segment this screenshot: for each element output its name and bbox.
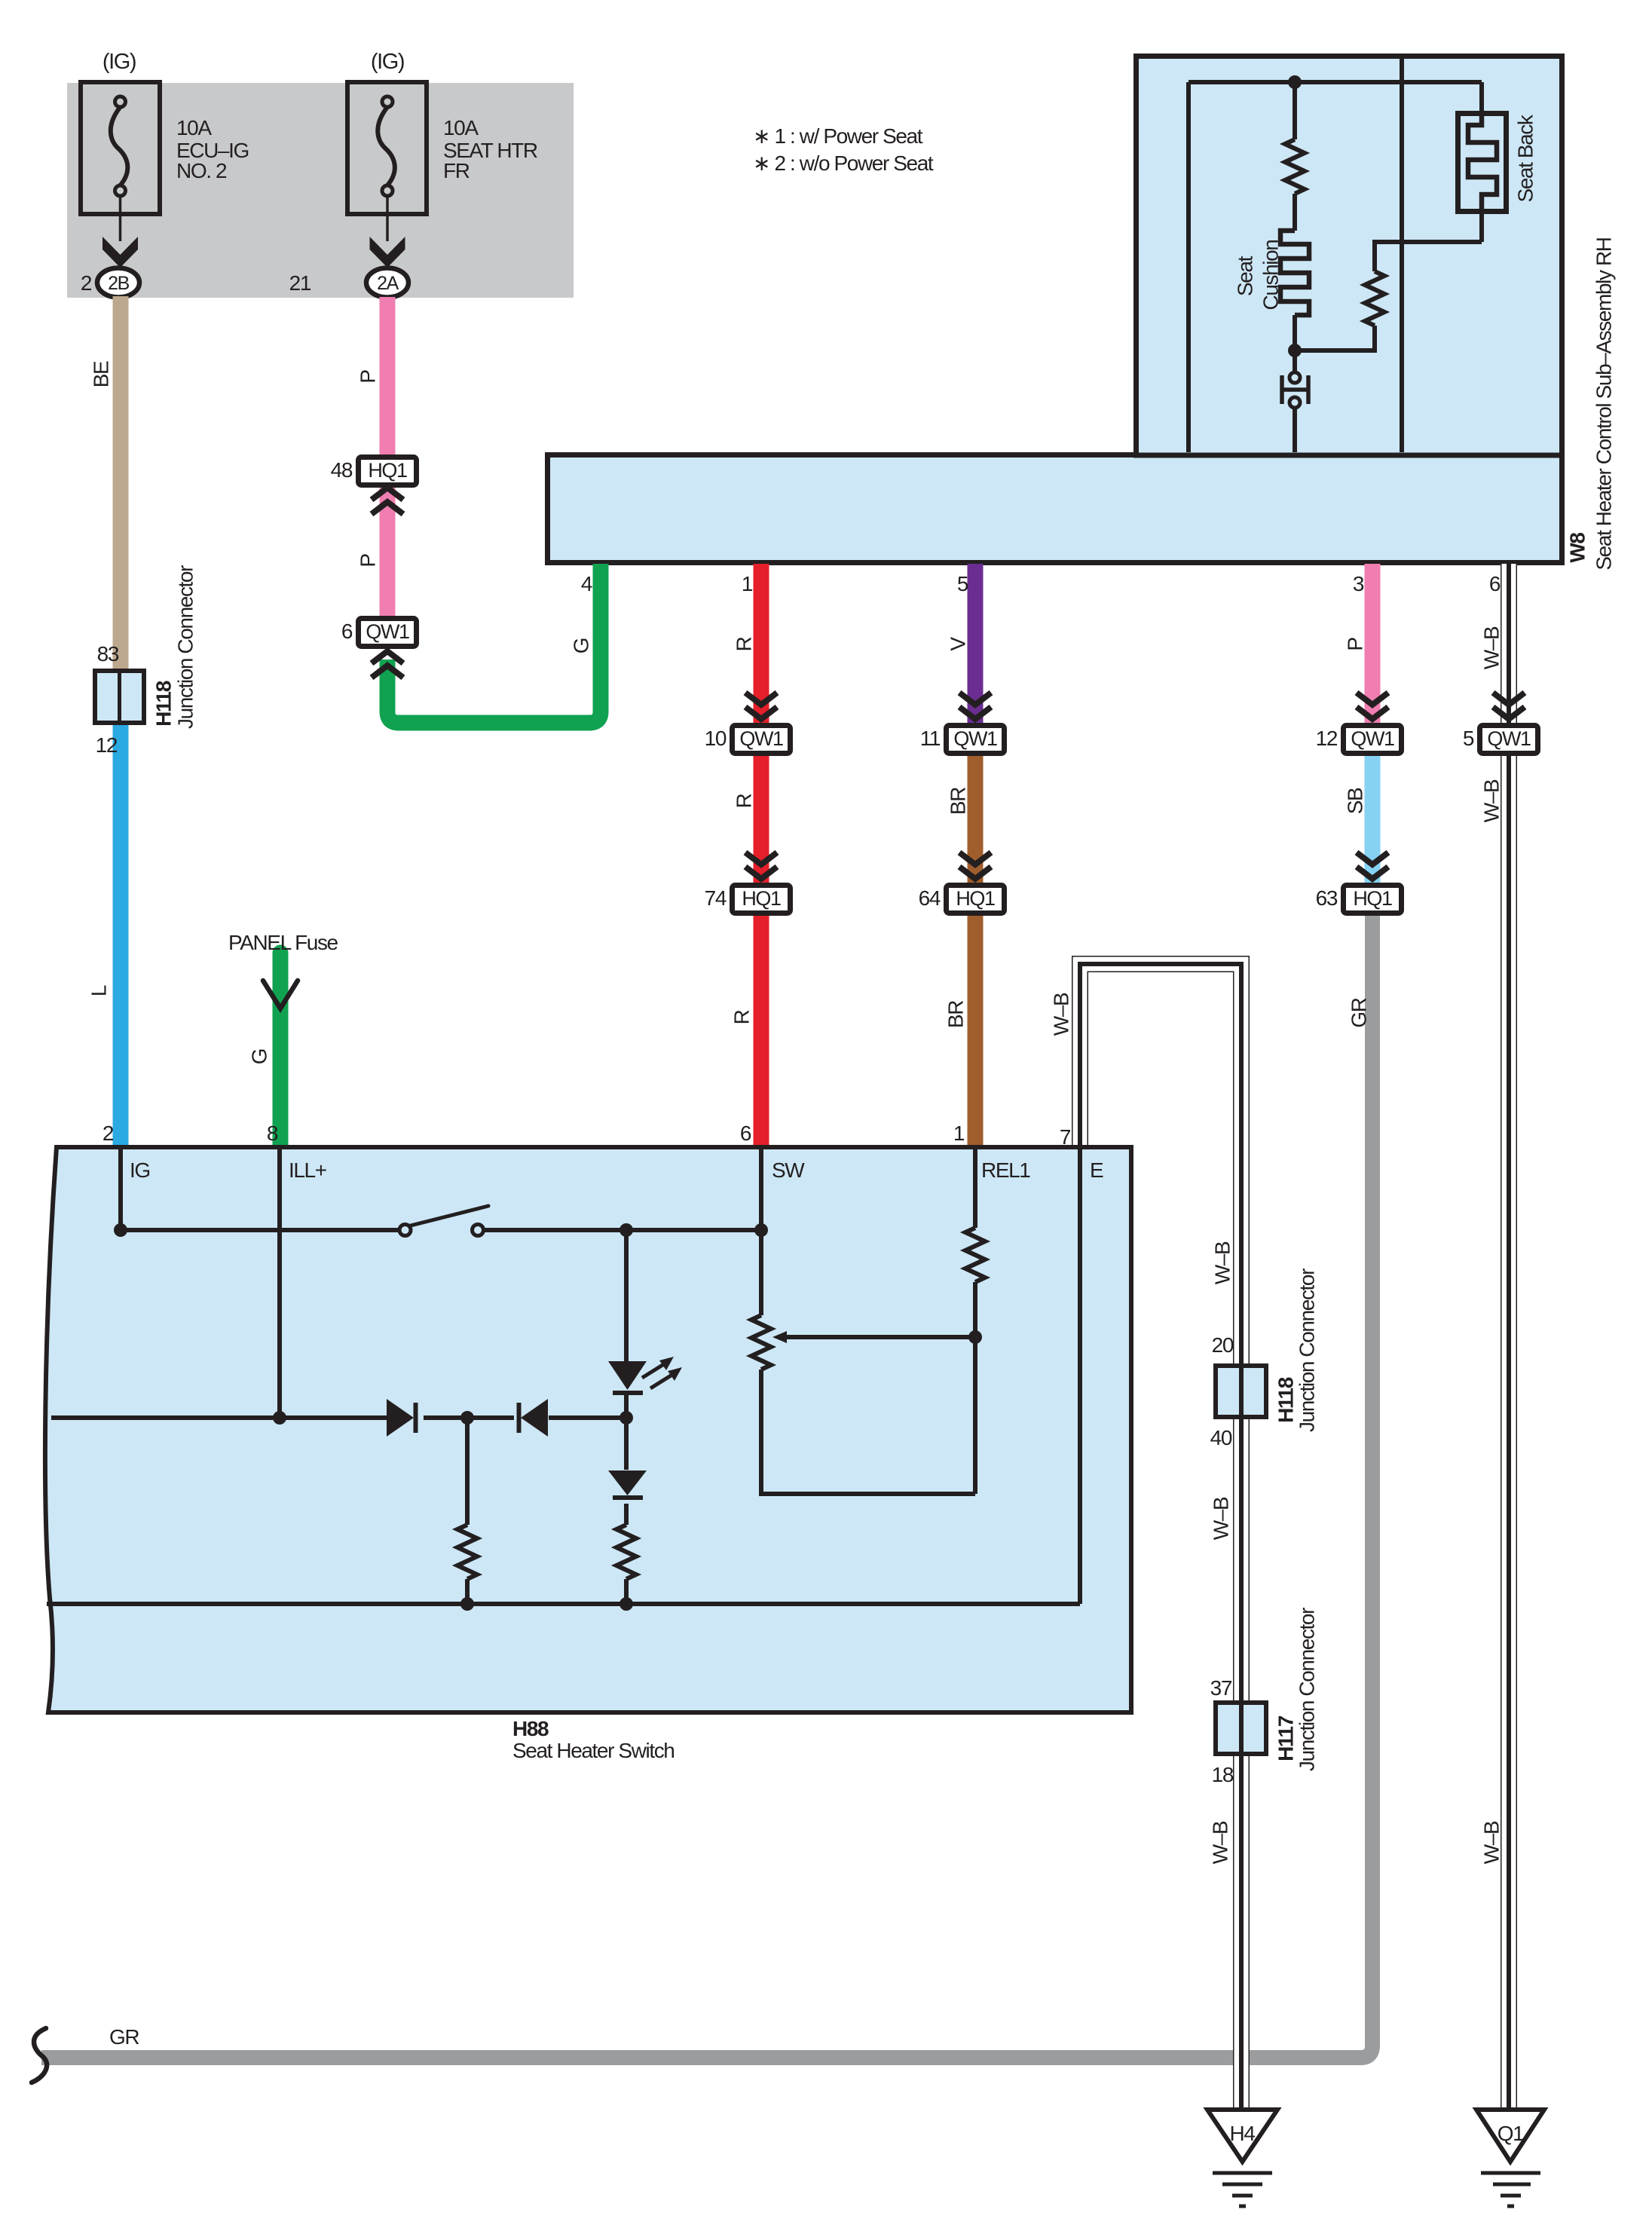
- svg-text:SB: SB: [1344, 788, 1367, 814]
- junction connector H118 (right) wire core: [1239, 1366, 1244, 1417]
- wire W-B (QW1 5 to ground Q1): [1501, 754, 1517, 2110]
- svg-text:2: 2: [81, 271, 92, 295]
- svg-text:GR: GR: [109, 2025, 139, 2049]
- junction connector H117 wire core: [1239, 1703, 1244, 1754]
- svg-text:Junction Connector: Junction Connector: [1296, 1269, 1319, 1432]
- wire V (W8 pin 5 to QW1 11): [968, 564, 984, 724]
- svg-text:10A: 10A: [443, 116, 479, 139]
- svg-text:SW: SW: [772, 1158, 805, 1182]
- wire BR (HQ1 64 to switch pin 1): [968, 914, 984, 1146]
- svg-text:48: 48: [331, 458, 353, 482]
- arrow into QW1 6 (up): [372, 651, 403, 678]
- wire: W8 internal left branch vertical: [1186, 82, 1191, 452]
- resistor (seat cushion parallel): [1365, 271, 1384, 326]
- svg-text:R: R: [733, 637, 756, 651]
- node: bottom rail junction left: [460, 1597, 474, 1611]
- svg-text:Junction Connector: Junction Connector: [174, 565, 197, 729]
- arrow into QW1 11 (down): [959, 693, 991, 719]
- svg-text:PANEL Fuse: PANEL Fuse: [228, 931, 338, 954]
- svg-text:10A: 10A: [176, 116, 212, 139]
- svg-text:IG: IG: [130, 1158, 150, 1182]
- ground Q1 hatching: [1481, 2173, 1540, 2206]
- wire: REL1 resistor to bottom loop: [973, 1282, 977, 1494]
- wire: LED branch vertical: [624, 1230, 629, 1361]
- svg-text:6: 6: [341, 620, 353, 643]
- ground H4 triangle: [1207, 2110, 1277, 2162]
- wire: W8 internal top horizontal: [1189, 80, 1482, 84]
- svg-text:W–B: W–B: [1050, 993, 1073, 1036]
- svg-text:BR: BR: [947, 788, 970, 815]
- rotated wire labels: [87, 114, 1616, 1864]
- heater element: seat back outer frame: [1458, 114, 1507, 212]
- diode D1 (ILL+ rail, pointing right): [387, 1399, 414, 1437]
- resistor (REL1 branch): [965, 1228, 985, 1282]
- PANEL fuse feed arrow: [263, 981, 298, 1008]
- wire: top horizontal to seat back element: [1479, 82, 1484, 111]
- arrow into HQ1 63 (down): [1357, 852, 1388, 879]
- node: ILL+ junction: [273, 1411, 286, 1425]
- wire GR (HQ1 63 down and across to left edge): [41, 914, 1372, 2058]
- wiper wire REL1 node to potentiometer: [785, 1335, 975, 1339]
- svg-text:40: 40: [1210, 1426, 1232, 1449]
- LED1 (indicator, pointing down): [608, 1361, 647, 1390]
- connector QW1 5 box: [1480, 726, 1538, 754]
- svg-text:QW1: QW1: [366, 620, 409, 643]
- arrow into HQ1 74 (down): [745, 852, 777, 879]
- svg-text:1: 1: [742, 572, 753, 595]
- svg-text:QW1: QW1: [1351, 727, 1394, 750]
- wire: switch pin 7 E internal: [1078, 1147, 1082, 1604]
- wire R (HQ1 74 to switch pin 6): [754, 914, 769, 1146]
- switch contact: left terminal: [399, 1225, 411, 1236]
- svg-text:Cushion: Cushion: [1259, 240, 1283, 311]
- wire W-B (W8 pin 6 to QW1 5): [1501, 564, 1517, 724]
- svg-text:P: P: [1344, 638, 1367, 651]
- svg-text:12: 12: [96, 733, 118, 757]
- wire: node to LED2: [624, 1418, 629, 1470]
- resistor (LED2 branch): [616, 1525, 636, 1579]
- connector HQ1 64 box: [947, 886, 1005, 914]
- svg-text:2A: 2A: [377, 273, 399, 294]
- svg-text:4: 4: [581, 572, 592, 595]
- fuse block (grey box): [67, 83, 574, 298]
- svg-text:H88: H88: [512, 1717, 549, 1740]
- svg-text:QW1: QW1: [1487, 727, 1531, 750]
- svg-text:R: R: [733, 794, 756, 808]
- svg-text:10: 10: [705, 727, 727, 750]
- svg-text:83: 83: [97, 642, 119, 666]
- fuse F2 output arrow: [370, 237, 405, 268]
- node: bottom rail junction right: [619, 1597, 633, 1611]
- connector QW1 10 box: [733, 726, 791, 754]
- seat heater control sub-assembly W8 : connector bar: [548, 455, 1562, 563]
- node: LED chain junction: [619, 1411, 633, 1425]
- potentiometer (SW branch) zigzag: [751, 1315, 771, 1370]
- svg-text:Junction Connector: Junction Connector: [1296, 1608, 1319, 1771]
- wire P (connector HQ1 48 to connector QW1 6): [380, 487, 396, 617]
- wire: node to right resistor: [1295, 326, 1375, 350]
- wire: right resistor top to seat back bottom: [1375, 242, 1482, 271]
- fuse F2 10A SEAT HTR FR : box: [347, 82, 427, 214]
- wire: switch pin 2 IG internal: [118, 1147, 123, 1230]
- svg-text:E: E: [1090, 1158, 1103, 1182]
- wire: LED1 to node: [624, 1395, 629, 1418]
- connector oval 2B: [97, 268, 139, 298]
- wire: ILL+ node to resistor: [465, 1418, 470, 1525]
- svg-text:R: R: [730, 1010, 754, 1024]
- svg-text:8: 8: [267, 1122, 278, 1145]
- svg-text:V: V: [947, 637, 970, 651]
- fuse F2 element (S-curve with terminals): [378, 96, 395, 241]
- svg-text:QW1: QW1: [953, 727, 997, 750]
- svg-text:G: G: [570, 638, 593, 653]
- svg-text:Q1: Q1: [1498, 2122, 1524, 2145]
- wire: switch pin 6 SW internal: [759, 1147, 763, 1315]
- arrow into QW1 12 (down): [1357, 693, 1388, 719]
- svg-text:GR: GR: [1348, 998, 1371, 1027]
- svg-text:W–B: W–B: [1210, 1497, 1233, 1540]
- svg-text:2B: 2B: [108, 273, 130, 294]
- wire: resistor to bottom rail: [465, 1579, 470, 1604]
- wire: resistor to bottom rail: [624, 1579, 629, 1604]
- wire BR (QW1 11 to HQ1 64): [968, 754, 984, 884]
- svg-text:37: 37: [1210, 1676, 1232, 1700]
- wire R (QW1 10 to HQ1 74): [754, 754, 769, 884]
- svg-text:∗ 2 : w/o Power Seat: ∗ 2 : w/o Power Seat: [753, 151, 934, 175]
- heater element: seat cushion meander: [1280, 231, 1309, 315]
- connector HQ1 48 box: [359, 458, 417, 485]
- node: LED branch top junction: [619, 1223, 633, 1237]
- svg-text:L: L: [87, 985, 111, 996]
- svg-text:64: 64: [919, 886, 941, 910]
- ground Q1 triangle: [1476, 2110, 1544, 2162]
- thermal protector switch: [1289, 372, 1300, 383]
- node: seat cushion bottom junction: [1288, 344, 1302, 357]
- svg-text:REL1: REL1: [981, 1158, 1030, 1182]
- wire: node to thermal switch: [1293, 350, 1297, 372]
- wire: heater to node: [1293, 315, 1297, 350]
- wire L (junction H118 to switch pin 2): [113, 724, 129, 1146]
- svg-text:HQ1: HQ1: [368, 459, 407, 482]
- wire: switch pin 8 ILL+ internal: [277, 1147, 282, 1418]
- seat heater switch H88 : body: [45, 1147, 1131, 1712]
- wire: switch pin 1 REL1 internal upper: [973, 1147, 977, 1228]
- svg-text:H118: H118: [152, 681, 176, 727]
- arrow into QW1 5 (down): [1493, 693, 1525, 719]
- connector HQ1 74 box: [733, 886, 791, 914]
- svg-text:6: 6: [1489, 572, 1501, 595]
- LED2 (pointing down): [608, 1471, 647, 1495]
- node: IG rail junction: [114, 1223, 127, 1237]
- wire: seat cushion branch upper: [1293, 82, 1297, 139]
- svg-text:G: G: [248, 1049, 271, 1064]
- wire: potentiometer bottom loop: [761, 1370, 975, 1494]
- fuse F1 10A ECU-IG NO.2 : box: [81, 82, 160, 214]
- node: diode rail junction: [460, 1411, 474, 1425]
- svg-text:BE: BE: [90, 361, 113, 387]
- node: REL1 wiper junction: [968, 1330, 982, 1344]
- svg-text:BR: BR: [944, 1001, 968, 1028]
- svg-text:W–B: W–B: [1480, 779, 1504, 822]
- svg-text:20: 20: [1212, 1333, 1234, 1357]
- svg-text:P: P: [356, 554, 380, 568]
- arrow into QW1 10 (down): [745, 693, 777, 719]
- svg-text:18: 18: [1212, 1763, 1234, 1786]
- svg-text:NO. 2: NO. 2: [176, 159, 227, 182]
- svg-text:2: 2: [102, 1122, 114, 1145]
- wire: diode rail: [424, 1415, 514, 1420]
- svg-text:H4: H4: [1230, 2122, 1256, 2145]
- connector QW1 11 box: [947, 726, 1005, 754]
- diode D2 (pointing left): [521, 1399, 548, 1437]
- wire P (fuse 2A to connector HQ1 48): [380, 297, 396, 456]
- svg-text:74: 74: [705, 886, 727, 910]
- svg-text:P: P: [356, 370, 380, 384]
- wire R (W8 pin 1 to QW1 10): [754, 564, 769, 724]
- svg-text:HQ1: HQ1: [742, 887, 781, 910]
- wire: switch internal mid rail from left edge: [51, 1415, 387, 1420]
- junction connector H118 (left) divider: [118, 671, 121, 723]
- wire G (connector QW1 6 to W8 pin 4): [387, 564, 601, 723]
- fuse F1 output arrow: [102, 237, 138, 268]
- svg-text:11: 11: [920, 727, 941, 750]
- wire: resistor to heater element: [1293, 194, 1297, 231]
- node: seat cushion top junction: [1288, 75, 1302, 89]
- svg-text:W–B: W–B: [1209, 1821, 1232, 1864]
- svg-text:5: 5: [957, 572, 968, 595]
- svg-text:Seat Heater Control Sub–Assemb: Seat Heater Control Sub–Assembly RH: [1592, 237, 1616, 570]
- junction connector H117 box: [1216, 1703, 1266, 1754]
- ground H4 hatching: [1213, 2173, 1272, 2206]
- svg-text:21: 21: [289, 271, 311, 295]
- heater element: seat back meander: [1468, 113, 1497, 214]
- wire: seat back element to lower horizontal: [1479, 211, 1484, 242]
- svg-text:ILL+: ILL+: [289, 1158, 326, 1182]
- wire: W8 internal divider vertical: [1400, 59, 1404, 452]
- arrow into HQ1 64 (down): [959, 852, 991, 879]
- connector HQ1 63 box: [1344, 886, 1402, 914]
- junction connector H118 (left) box: [95, 671, 144, 723]
- svg-text:5: 5: [1463, 727, 1474, 750]
- svg-text:QW1: QW1: [739, 727, 783, 750]
- svg-text:W8: W8: [1566, 533, 1589, 563]
- svg-text:FR: FR: [443, 159, 470, 182]
- wire: switch internal top rail: [121, 1228, 399, 1232]
- svg-text:HQ1: HQ1: [1353, 887, 1392, 910]
- svg-text:HQ1: HQ1: [956, 887, 995, 910]
- connector QW1 12 box: [1344, 726, 1402, 754]
- svg-text:(IG): (IG): [371, 50, 404, 74]
- wire BE (fuse 2B to junction H118): [113, 296, 129, 670]
- svg-text:H117: H117: [1274, 1715, 1298, 1761]
- arrow into HQ1 48 (up): [372, 488, 403, 514]
- svg-text:W–B: W–B: [1211, 1241, 1234, 1284]
- wire break squiggle at left end of GR wire: [32, 2028, 47, 2083]
- seat heater control sub-assembly W8 : upper body box: [1137, 57, 1562, 456]
- svg-text:∗ 1 : w/ Power Seat: ∗ 1 : w/ Power Seat: [753, 124, 923, 148]
- junction connector H118 (right) box: [1216, 1366, 1266, 1417]
- resistor (seat cushion series): [1285, 139, 1305, 194]
- svg-text:6: 6: [740, 1122, 751, 1145]
- svg-text:W–B: W–B: [1480, 1821, 1504, 1864]
- fuse F1 element (S-curve with terminals): [111, 96, 128, 241]
- wire P (W8 pin 3 to QW1 12): [1365, 564, 1381, 724]
- svg-text:7: 7: [1060, 1125, 1071, 1149]
- wire: thermal switch to bar: [1293, 408, 1297, 452]
- switch contact: right terminal: [473, 1225, 484, 1236]
- wiper arrowhead: [772, 1331, 787, 1343]
- svg-text:Seat Back: Seat Back: [1514, 114, 1537, 202]
- svg-text:Seat: Seat: [1234, 256, 1257, 296]
- LED1 emission arrows: [642, 1363, 675, 1388]
- svg-text:W–B: W–B: [1480, 626, 1504, 669]
- svg-text:Seat Heater Switch: Seat Heater Switch: [512, 1739, 674, 1762]
- wire: LED2 to resistor: [624, 1504, 629, 1525]
- connector oval 2A: [366, 268, 408, 298]
- wire: switch internal bottom rail: [47, 1602, 1080, 1606]
- svg-text:63: 63: [1316, 886, 1338, 910]
- resistor (illumination branch): [457, 1525, 477, 1579]
- wire SB (QW1 12 to HQ1 63): [1365, 754, 1381, 884]
- svg-text:1: 1: [953, 1122, 965, 1145]
- svg-text:12: 12: [1316, 727, 1338, 750]
- node: SW rail junction: [754, 1223, 768, 1237]
- wire W-B (switch pin 7 loop to ground H4): [1080, 964, 1241, 2110]
- svg-text:3: 3: [1353, 572, 1364, 595]
- svg-text:(IG): (IG): [102, 50, 136, 74]
- wire G (PANEL fuse to switch pin 8): [273, 953, 289, 1146]
- connector QW1 6 box: [359, 619, 417, 647]
- svg-text:H118: H118: [1274, 1377, 1298, 1423]
- switch contact blade: [411, 1206, 488, 1226]
